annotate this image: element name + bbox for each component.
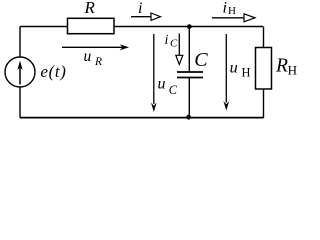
wire capacitor branch lower	[188, 78, 190, 118]
voltage arrow uH shaft	[225, 34, 227, 103]
current arrow iH open head	[244, 14, 255, 22]
svg-text:u: u	[84, 48, 92, 65]
capacitor C top plate	[177, 71, 203, 73]
wire right upper	[263, 27, 265, 48]
svg-text:i: i	[223, 0, 227, 17]
svg-text:R: R	[84, 0, 96, 17]
wire left lower	[19, 87, 21, 118]
current arrow i open head	[151, 13, 161, 20]
svg-text:Н: Н	[242, 65, 251, 79]
svg-text:Н: Н	[288, 62, 297, 77]
source arrow shaft	[19, 64, 21, 85]
voltage arrow uR head	[120, 44, 130, 50]
svg-text:i: i	[138, 0, 142, 17]
svg-text:R: R	[275, 55, 288, 76]
wire bottom horizontal	[20, 117, 264, 119]
current arrow iC shaft	[178, 34, 180, 56]
svg-text:Н: Н	[228, 5, 236, 17]
svg-text:R: R	[94, 56, 102, 68]
svg-text:C: C	[169, 83, 178, 97]
voltage arrow uR shaft	[62, 46, 125, 48]
svg-text:C: C	[194, 49, 208, 71]
svg-text:u: u	[158, 75, 166, 92]
svg-text:i: i	[165, 33, 169, 48]
voltage arrow uC shaft	[153, 34, 155, 104]
resistor RH box	[256, 48, 272, 90]
junction dot top node	[187, 24, 192, 29]
voltage arrow uH head	[223, 101, 229, 111]
svg-text:e(t): e(t)	[41, 62, 67, 81]
svg-text:u: u	[230, 58, 238, 77]
wire top horizontal	[20, 26, 263, 28]
resistor R box	[68, 18, 115, 33]
source e(t) circle U1	[5, 57, 35, 87]
svg-text:C: C	[170, 38, 178, 50]
current arrow iH shaft	[212, 17, 244, 19]
current arrow iC open head	[176, 55, 183, 64]
voltage arrow uC head	[151, 103, 157, 113]
source arrowhead	[17, 61, 22, 71]
wire right lower	[263, 89, 265, 118]
capacitor C bottom plate	[177, 77, 203, 79]
wire capacitor branch upper	[188, 27, 190, 72]
junction dot bottom node	[186, 115, 191, 120]
wire left upper	[19, 27, 21, 58]
current arrow i shaft	[131, 16, 151, 18]
